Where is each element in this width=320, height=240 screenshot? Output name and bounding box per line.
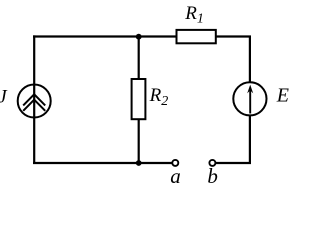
svg-text:R2: R2	[149, 85, 169, 109]
resistor R2	[132, 79, 146, 119]
junction dot top (node between R1, R2, J)	[136, 34, 142, 40]
svg-text:E: E	[276, 84, 289, 106]
terminal a	[172, 160, 178, 166]
wire top horizontal left segment	[33, 35, 177, 37]
resistor R1	[177, 30, 216, 43]
wire top horizontal right segment	[215, 35, 251, 37]
svg-text:R1: R1	[184, 3, 204, 27]
wire middle vertical (R2 branch)	[138, 37, 140, 164]
voltage source E arrow shaft	[249, 89, 251, 114]
wire bottom horizontal right segment	[216, 162, 252, 164]
wire right vertical	[249, 37, 251, 165]
svg-text:J: J	[0, 86, 8, 107]
svg-text:a: a	[170, 164, 181, 188]
wire left vertical	[33, 35, 35, 164]
wire bottom horizontal left segment	[33, 162, 172, 164]
voltage source E arrowhead	[247, 85, 253, 94]
junction dot bottom (node between R2 branch and bottom wire)	[136, 160, 142, 166]
terminal b	[209, 160, 215, 166]
voltage source E	[233, 82, 266, 115]
current source J arrow chevron upper	[23, 94, 45, 105]
svg-text:b: b	[207, 164, 218, 188]
current source J arrow chevron lower	[23, 100, 45, 111]
current source J	[18, 85, 51, 118]
